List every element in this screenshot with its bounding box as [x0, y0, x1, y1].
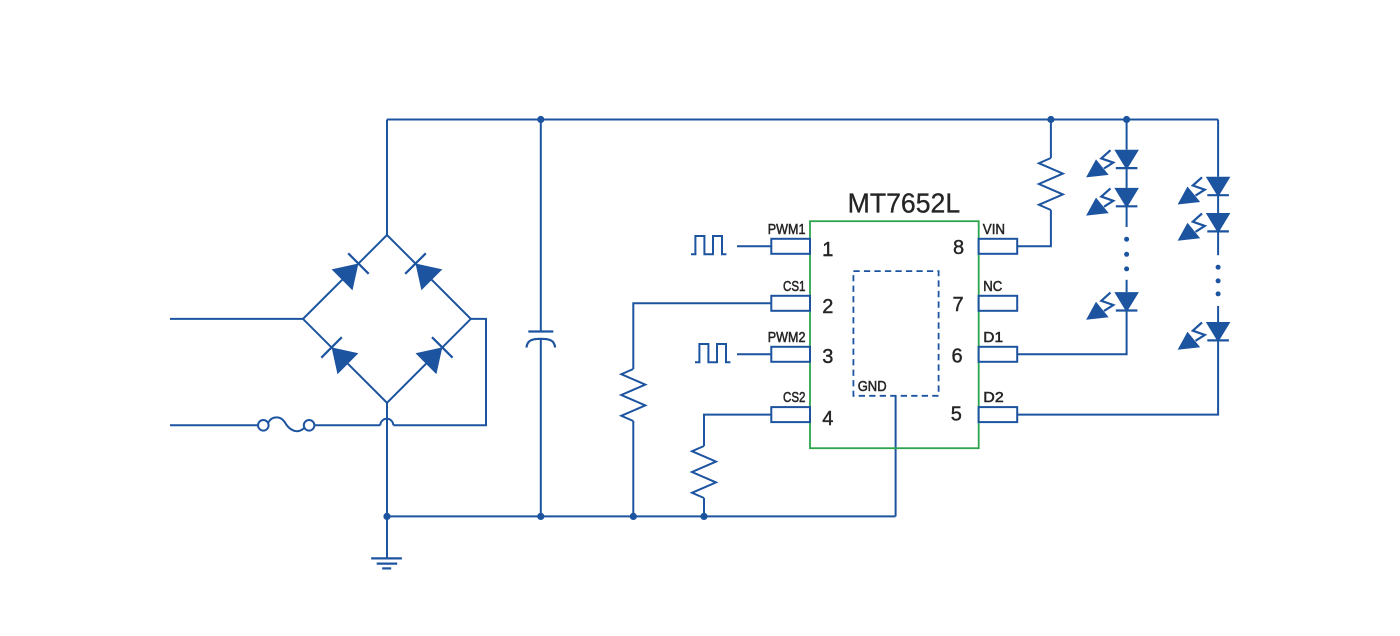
svg-text:MT7652L: MT7652L — [848, 188, 961, 219]
svg-text:NC: NC — [983, 279, 1002, 295]
svg-text:4: 4 — [822, 408, 833, 430]
svg-text:PWM1: PWM1 — [768, 222, 806, 238]
svg-text:6: 6 — [951, 346, 962, 368]
svg-text:D1: D1 — [983, 330, 1003, 346]
svg-text:3: 3 — [822, 346, 833, 368]
svg-text:GND: GND — [858, 379, 887, 395]
svg-text:PWM2: PWM2 — [768, 330, 806, 346]
svg-text:CS2: CS2 — [783, 390, 806, 406]
svg-text:CS1: CS1 — [783, 279, 806, 295]
svg-text:8: 8 — [953, 237, 964, 259]
svg-text:7: 7 — [952, 294, 963, 316]
svg-text:2: 2 — [822, 296, 833, 318]
svg-text:VIN: VIN — [983, 222, 1005, 238]
svg-text:5: 5 — [951, 404, 962, 426]
svg-text:D2: D2 — [983, 390, 1003, 406]
svg-text:1: 1 — [822, 239, 833, 261]
